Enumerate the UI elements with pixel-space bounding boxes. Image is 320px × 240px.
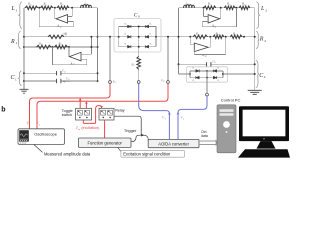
resistor Rc below C0 — [137, 56, 141, 69]
node right bus C — [254, 63, 256, 65]
internal node wire N2 — [178, 8, 180, 74]
diode D3a — [128, 45, 131, 48]
wire C row 1 — [24, 72, 57, 74]
ground GND2 — [248, 90, 262, 94]
wire A22 top input — [190, 44, 194, 46]
diode DC2a y77.6 — [196, 76, 199, 79]
svg-text:11: 11 — [45, 4, 47, 6]
node right bus R — [254, 36, 256, 38]
internal node wire N1 — [97, 8, 99, 81]
node C0 center row 2 — [138, 36, 140, 38]
svg-text:1: 1 — [16, 9, 18, 13]
wire trigger to converter — [131, 135, 148, 142]
node R2-4 — [243, 36, 245, 38]
wire L1 row — [24, 7, 98, 9]
relay box — [99, 108, 114, 120]
C0 row 1 wire — [119, 26, 156, 28]
svg-text:11: 11 — [214, 62, 216, 64]
wire op-amp A22 output stub — [209, 37, 211, 48]
resistor R23 — [193, 35, 208, 39]
wire op-amp A21 output stub — [68, 47, 70, 57]
svg-text:R: R — [10, 39, 15, 45]
brace for L2 section — [257, 2, 260, 29]
resistor R16 — [239, 6, 250, 10]
node N1-C1 — [97, 72, 99, 74]
svg-text:switch: switch — [62, 113, 72, 117]
capacitor C11 — [57, 71, 61, 75]
svg-text:Function generator: Function generator — [88, 140, 123, 145]
brace for R2 section — [256, 31, 259, 48]
diode D2a — [128, 35, 131, 38]
svg-text:11: 11 — [244, 4, 246, 6]
oscilloscope box — [18, 129, 65, 145]
wire C2 diode row left — [179, 73, 191, 75]
resistor R14 — [204, 6, 216, 10]
pointer measured amplitude data — [34, 145, 43, 153]
wire A11 top input — [68, 15, 73, 17]
svg-text:2: 2 — [264, 75, 266, 79]
wire red toggle to relay — [83, 106, 101, 124]
wire A12 top input — [204, 15, 209, 17]
wire Rc to terminal — [138, 54, 140, 57]
inductor L21 — [184, 5, 195, 8]
node right bus Cd — [254, 73, 256, 75]
C2 diode center rail — [206, 71, 208, 78]
terminal V1 — [109, 81, 112, 84]
diode D1a — [128, 25, 131, 28]
diode D1b — [145, 25, 148, 28]
svg-text:11: 11 — [163, 81, 165, 83]
node C0 center row 1 — [138, 26, 140, 28]
svg-text:2: 2 — [265, 9, 267, 13]
diode DC2b y77.6 — [213, 76, 216, 79]
node on left bus at C row 2 — [23, 80, 25, 82]
wire red toggle switch lead 2 — [85, 103, 87, 109]
main row wire — [24, 36, 255, 38]
node C0 center row 3 — [138, 46, 140, 48]
node R2-3 — [225, 36, 227, 38]
node A4 — [203, 7, 205, 9]
svg-text:11: 11 — [86, 4, 88, 6]
wire op-amp A11 output stub — [54, 8, 56, 19]
C0 right rail — [155, 27, 157, 47]
terminal V2 — [167, 81, 170, 84]
node N1-C2 — [97, 80, 99, 82]
svg-text:11: 11 — [229, 4, 231, 6]
svg-text:11: 11 — [198, 34, 200, 36]
svg-text:Oscilloscope: Oscilloscope — [34, 131, 57, 136]
wire C2 center tap — [206, 78, 208, 94]
brace for R1 section — [18, 31, 21, 48]
node N1-R — [97, 36, 99, 38]
ground GND1 — [20, 89, 29, 93]
diode D2b — [145, 35, 148, 38]
wire C row 2 — [24, 80, 57, 82]
svg-text:11: 11 — [60, 44, 62, 46]
node B1 — [52, 46, 54, 48]
svg-text:11: 11 — [217, 34, 219, 36]
wire op-amp A12 output stub — [220, 8, 222, 19]
resistor R11 — [25, 6, 38, 10]
C0 center rail — [138, 27, 140, 54]
node A1 — [38, 7, 40, 9]
svg-text:11: 11 — [62, 4, 64, 6]
svg-text:11: 11 — [114, 82, 116, 84]
svg-text:Measured amplitude data: Measured amplitude data — [44, 152, 91, 157]
brace for C2 section — [256, 60, 259, 87]
svg-text:R: R — [259, 37, 264, 43]
brace for C1 section — [19, 71, 22, 86]
PC tower — [217, 105, 236, 153]
resistor R21 — [37, 45, 52, 49]
oscilloscope screen icon — [19, 130, 29, 141]
wire blue Vc to converter — [139, 84, 170, 140]
svg-text:1: 1 — [15, 77, 17, 81]
resistor R24 — [213, 35, 224, 39]
svg-text:Excitation signal condition: Excitation signal condition — [123, 152, 171, 157]
node on left bus at sub row — [23, 46, 25, 48]
terminal V4t — [206, 93, 209, 96]
node C2d center bottom — [206, 77, 208, 79]
svg-text:AO/DA converter: AO/DA converter — [158, 141, 189, 146]
C2 diode left rail — [189, 71, 191, 78]
relay contacts — [101, 110, 106, 115]
arrow on variable capacitor Cb1 — [63, 81, 70, 83]
bus converter to PC — [199, 140, 216, 142]
node C2d center top — [206, 70, 208, 72]
excitation signal condition label box — [121, 150, 185, 157]
svg-text:1: 1 — [16, 41, 18, 45]
C0 row 2 wire — [119, 36, 156, 38]
node on left bus at C row 1 — [23, 72, 25, 74]
node A2 — [54, 7, 56, 9]
node C2d left — [189, 73, 191, 75]
toggle switch contacts — [78, 110, 83, 115]
capacitor Cb1 variable — [57, 79, 61, 83]
left bus wire — [23, 8, 25, 90]
node C0 left — [118, 36, 120, 38]
diode DC2a y70.9 — [196, 70, 199, 73]
svg-text:11: 11 — [68, 79, 70, 81]
op-amp A12 — [208, 15, 220, 23]
svg-text:Trigger: Trigger — [124, 128, 137, 133]
PC monitor — [239, 106, 289, 141]
svg-text:22: 22 — [205, 56, 207, 58]
AO DA converter box — [148, 139, 199, 147]
diode D3b — [145, 45, 148, 48]
wire C2 cap row — [179, 63, 207, 65]
node A3 — [71, 7, 73, 9]
node C2d right — [222, 73, 224, 75]
terminal Vc — [137, 81, 140, 84]
wire blue V4 to converter — [178, 96, 207, 139]
node N2-C — [178, 63, 180, 65]
svg-text:Control PC: Control PC — [221, 97, 241, 102]
svg-text:Toggle: Toggle — [62, 109, 73, 113]
pointer excitation signal condition — [118, 148, 121, 152]
node N2-R — [178, 36, 180, 38]
svg-text:2: 2 — [264, 39, 266, 43]
node C0 right — [155, 36, 157, 38]
C0 left rail — [118, 27, 120, 47]
svg-text:11: 11 — [30, 4, 32, 6]
function generator box — [78, 138, 131, 147]
C0 box — [114, 19, 161, 53]
node A5 — [220, 7, 222, 9]
right bus wire — [254, 8, 256, 91]
wire V2 tap — [167, 37, 169, 81]
svg-text:L: L — [260, 6, 265, 12]
wire C2 diode row right — [223, 73, 255, 75]
capacitor C21 — [207, 62, 211, 66]
C0 row 3 wire — [119, 46, 156, 48]
node B2 — [68, 46, 70, 48]
wire A22 bottom input feedback — [193, 50, 195, 54]
diode DC2b y70.9 — [213, 70, 216, 73]
resistor R12 — [41, 6, 53, 10]
svg-text:11: 11 — [133, 65, 135, 67]
svg-text:11: 11 — [235, 34, 237, 36]
node R2-1 — [189, 36, 191, 38]
wire L2 row — [179, 7, 255, 9]
node N1-sub — [97, 46, 99, 48]
svg-text:(excitation): (excitation) — [80, 126, 99, 130]
svg-text:L: L — [11, 6, 16, 12]
sub row wire — [24, 46, 98, 48]
C2 diode row wire y77.6 — [190, 77, 223, 79]
svg-text:Relay: Relay — [115, 109, 125, 113]
wire A11 bottom input feedback — [68, 20, 74, 22]
toggle switch box — [76, 108, 92, 120]
PC keyboard — [238, 149, 290, 157]
node V2 tap — [167, 36, 169, 38]
wire red toggle switch lead 1 — [79, 99, 81, 108]
wire A12 bottom input feedback — [202, 20, 208, 22]
op-amp A21 — [69, 52, 81, 61]
wire V1 tap — [109, 37, 111, 81]
resistor R25 — [230, 35, 242, 39]
node A6 — [236, 7, 238, 9]
svg-text:11: 11 — [65, 34, 67, 36]
resistor Rb1 on main row — [48, 35, 64, 39]
resistor R13 — [57, 6, 69, 10]
brace for L1 section — [19, 2, 22, 29]
svg-text:data: data — [201, 134, 208, 138]
wire inductor to internal node — [92, 7, 98, 9]
resistor R15 — [224, 6, 235, 10]
wire red V1 to oscilloscope — [30, 84, 111, 129]
op-amp A22 — [194, 43, 208, 52]
C2 diode row wire y70.9 — [190, 70, 223, 72]
node V1 tap — [109, 36, 111, 38]
svg-text:C: C — [134, 12, 138, 18]
svg-text:11: 11 — [187, 4, 189, 6]
C2 diode right rail — [222, 71, 224, 78]
wire trigger relay drop — [114, 116, 141, 135]
wire A21 top input — [81, 53, 91, 55]
svg-text:b: b — [1, 107, 5, 114]
PC monitor stand — [257, 141, 276, 149]
op-amp A11 — [56, 15, 68, 23]
inductor L11 — [81, 5, 92, 8]
node B3 — [90, 46, 92, 48]
wire A21 bottom input feedback — [81, 58, 87, 60]
node R2-2 — [209, 36, 211, 38]
svg-text:11: 11 — [210, 4, 212, 6]
resistor R22 — [55, 45, 68, 49]
C2 diode box — [187, 67, 228, 82]
wire red excitation to function generator — [104, 120, 106, 138]
wire red V2 to oscilloscope — [37, 84, 168, 129]
node on left bus at R row — [23, 36, 25, 38]
svg-text:11: 11 — [41, 44, 43, 46]
svg-text:11: 11 — [64, 71, 66, 73]
